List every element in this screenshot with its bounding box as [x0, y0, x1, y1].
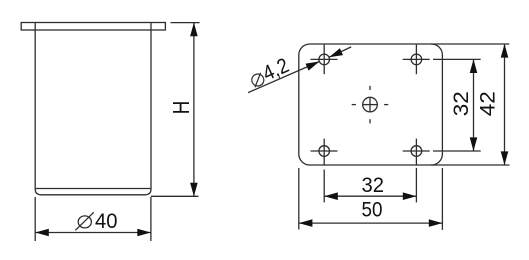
- H dimension arrow down: [190, 183, 198, 197]
- diameter 4,2 leader line: [248, 62, 319, 93]
- hole top-left: [319, 54, 330, 65]
- H dimension line: [193, 23, 195, 197]
- H dimension arrow up: [190, 23, 198, 37]
- 50 dimension line: [299, 222, 443, 224]
- svg-text:50: 50: [362, 199, 383, 222]
- leg front view: left wall: [34, 23, 36, 189]
- diameter 40 dimension line: [35, 232, 151, 234]
- leg front view: top flange: [21, 23, 165, 31]
- leg front view: bottom seam line: [35, 188, 151, 190]
- hole top-right: [411, 54, 422, 65]
- svg-text:42: 42: [477, 91, 500, 116]
- 50 arrow left: [299, 219, 313, 227]
- 32 vertical dimension line: [473, 59, 475, 151]
- svg-text:32: 32: [362, 174, 385, 197]
- diameter 4,2 label: [247, 54, 293, 91]
- 32 horizontal dim: left extension line: [323, 170, 325, 203]
- svg-text:40: 40: [95, 210, 118, 233]
- svg-text:32: 32: [450, 91, 473, 116]
- 42 vertical arrow up: [501, 44, 509, 58]
- center hole center mark vertical: [369, 97, 371, 112]
- svg-text:H: H: [168, 101, 194, 115]
- hole top-left crosshair: [311, 58, 338, 60]
- 42 vertical dim: top extension line (flush with plate top): [431, 43, 509, 45]
- diameter 40 right extension line: [150, 197, 152, 241]
- diameter 40 arrow right: [137, 229, 151, 237]
- 42 vertical arrow down: [501, 151, 509, 165]
- mounting plate outline: [299, 44, 443, 165]
- diameter 40 label: symbol: [78, 216, 91, 228]
- diameter 4,2 arrow lower: [306, 62, 320, 71]
- diameter 4,2 arrow upper: [329, 48, 343, 57]
- 32 horizontal arrow left: [324, 192, 338, 200]
- 32 horizontal arrow right: [403, 192, 417, 200]
- 32 horizontal dim: right extension line: [415, 168, 417, 203]
- 32 vertical arrow down: [470, 137, 478, 151]
- center hole: [363, 97, 378, 112]
- 50 dim: left extension line: [298, 168, 300, 230]
- center hole center mark horizontal: [362, 104, 377, 106]
- diameter 40 left extension line: [34, 197, 36, 241]
- leg front view: bottom cap outline: [35, 189, 151, 195]
- hole bottom-right: [411, 146, 422, 157]
- hole bottom-left crosshair: [311, 150, 338, 152]
- hole bottom-right crosshair: [403, 150, 430, 152]
- 42 vertical dimension line: [504, 44, 506, 165]
- H dimension: bottom extension line: [151, 195, 199, 197]
- 42 vertical dim: bottom extension line (flush with plate bottom): [431, 164, 510, 166]
- diameter 40 arrow left: [35, 229, 49, 237]
- 32 vertical dim: bottom extension line: [433, 150, 481, 152]
- 50 arrow right: [429, 219, 443, 227]
- hole top-right crosshair: [403, 58, 430, 60]
- 32 vertical arrow up: [470, 59, 478, 73]
- leg front view: right wall: [150, 23, 152, 189]
- hole bottom-left: [319, 146, 330, 157]
- 32 vertical dim: top extension line: [433, 58, 481, 60]
- 50 dim: right extension line: [441, 168, 443, 230]
- 32 horizontal dimension line: [324, 195, 416, 197]
- H dimension: top extension line: [171, 22, 200, 24]
